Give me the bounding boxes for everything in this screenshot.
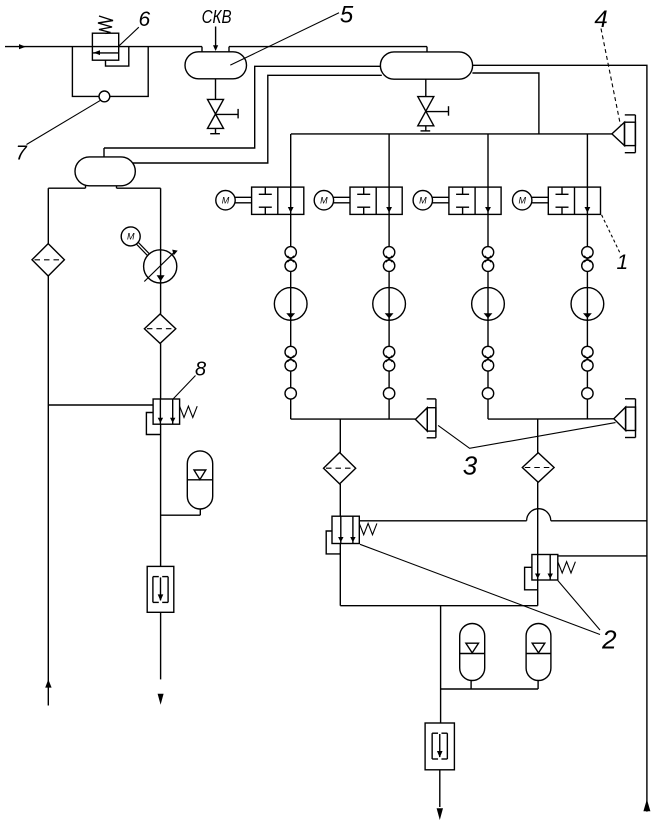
- svg-text:СКВ: СКВ: [202, 7, 232, 27]
- svg-text:6: 6: [138, 8, 150, 31]
- svg-text:1: 1: [616, 251, 628, 274]
- svg-text:M: M: [127, 232, 135, 242]
- svg-text:2: 2: [601, 625, 617, 655]
- svg-text:3: 3: [463, 450, 478, 480]
- svg-text:8: 8: [195, 358, 206, 380]
- svg-text:4: 4: [594, 6, 607, 33]
- svg-text:7: 7: [16, 143, 28, 165]
- svg-text:5: 5: [340, 1, 354, 28]
